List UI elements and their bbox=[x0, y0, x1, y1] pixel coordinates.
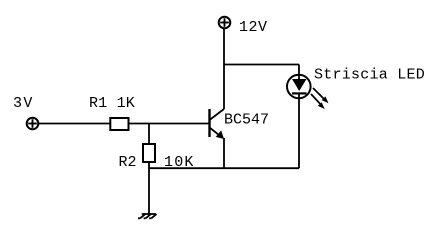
svg-text:3V: 3V bbox=[13, 95, 34, 112]
wire collector up bbox=[223, 29, 225, 110]
transistor Q1 BC547 bbox=[210, 109, 225, 137]
svg-text:BC547: BC547 bbox=[224, 112, 269, 129]
LED light arrow 2 bbox=[311, 94, 321, 105]
LED D1 bbox=[287, 75, 311, 99]
wire top rail bbox=[224, 64, 299, 66]
svg-text:12V: 12V bbox=[239, 19, 268, 36]
wire emitter down bbox=[223, 138, 225, 168]
wire terminal to R1 bbox=[38, 123, 110, 125]
resistor R1 bbox=[110, 118, 128, 130]
svg-text:R2: R2 bbox=[119, 154, 137, 171]
node 12V terminal bbox=[219, 17, 231, 29]
resistor R2 bbox=[143, 144, 155, 162]
wire R2 to ground bbox=[148, 162, 150, 214]
LED light arrow 1 bbox=[313, 88, 325, 100]
wire LED down to bottom rail bbox=[298, 93, 300, 168]
svg-text:R1 1K: R1 1K bbox=[89, 95, 135, 112]
wire junction down to R2 bbox=[148, 124, 150, 146]
wire R1 to base bbox=[129, 123, 209, 125]
node 3V terminal bbox=[27, 118, 39, 130]
svg-text:Striscia LED: Striscia LED bbox=[314, 67, 425, 84]
ground bbox=[138, 214, 157, 218]
wire down to LED bbox=[298, 65, 300, 81]
wire bottom rail bbox=[149, 167, 299, 169]
